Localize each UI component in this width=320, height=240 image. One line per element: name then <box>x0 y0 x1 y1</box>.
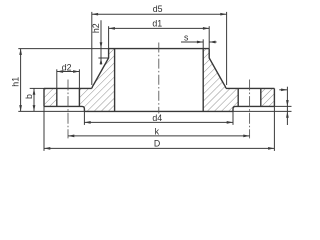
node main centerline <box>158 43 160 114</box>
hatch region right neck wall <box>203 49 226 89</box>
svg-text:h1: h1 <box>10 77 20 87</box>
dimension h2 <box>98 20 108 64</box>
dimension s <box>181 39 217 48</box>
wire: plate top face right <box>226 87 274 89</box>
dimension d1 <box>109 26 210 48</box>
hatch region plate left outer <box>44 88 57 106</box>
wire: plate right edge <box>273 88 275 106</box>
wire: right bolt hole right wall <box>260 88 262 106</box>
svg-text:d5: d5 <box>153 4 163 14</box>
wire: right bore wall <box>202 49 204 112</box>
dimension d4 <box>84 111 233 125</box>
wire: plate left edge <box>43 88 45 106</box>
svg-text:d1: d1 <box>152 19 162 29</box>
svg-text:k: k <box>155 127 160 137</box>
wire: neck top face <box>109 48 210 50</box>
wire: left neck outer edge and cone <box>92 49 109 89</box>
label h2 <box>91 23 101 33</box>
wire: top face extension to left for h1 h2 <box>18 48 108 50</box>
dimension h1 <box>20 49 22 112</box>
wire: left bolt hole left wall <box>56 88 58 106</box>
dimension d2 <box>57 69 80 88</box>
wire: right bolt hole left wall <box>237 88 239 106</box>
dimension k <box>68 135 250 137</box>
wire: left bolt hole right wall <box>78 88 80 106</box>
dimension d5 <box>92 12 227 85</box>
wire: raised face bottom <box>84 110 233 112</box>
dimension b <box>33 88 35 111</box>
hatch region plate left inner with raised face <box>79 88 114 111</box>
wire: raised face bottom extension left for h1 b <box>18 110 84 112</box>
wire: plate bottom extension right for f <box>274 105 291 107</box>
dimension f raised face height <box>279 87 287 125</box>
svg-text:s: s <box>184 33 189 43</box>
dimension D <box>44 106 274 150</box>
wire: left bore wall <box>114 49 116 112</box>
hatch region plate right outer <box>261 88 275 106</box>
svg-text:b: b <box>24 94 34 99</box>
hatch region left neck wall <box>92 49 115 89</box>
svg-text:d2: d2 <box>62 63 72 73</box>
svg-text:D: D <box>154 138 160 148</box>
wire: plate top face left <box>44 87 92 89</box>
hatch region plate right inner with raised face <box>203 88 238 111</box>
wire: plate top extension left for b <box>30 87 44 89</box>
svg-text:d4: d4 <box>152 113 162 123</box>
wire: plate bottom right with raised face step <box>233 106 274 111</box>
node right bolt centerline k extension <box>249 80 251 139</box>
wire: right neck outer edge and cone <box>209 49 226 89</box>
label h1 <box>10 77 20 87</box>
wire: plate bottom left with raised face step <box>44 106 84 111</box>
svg-text:h2: h2 <box>91 23 101 33</box>
node left bolt centerline k extension <box>67 80 69 139</box>
label b <box>24 94 34 99</box>
wire: raised face bottom extension right for f <box>233 110 292 112</box>
